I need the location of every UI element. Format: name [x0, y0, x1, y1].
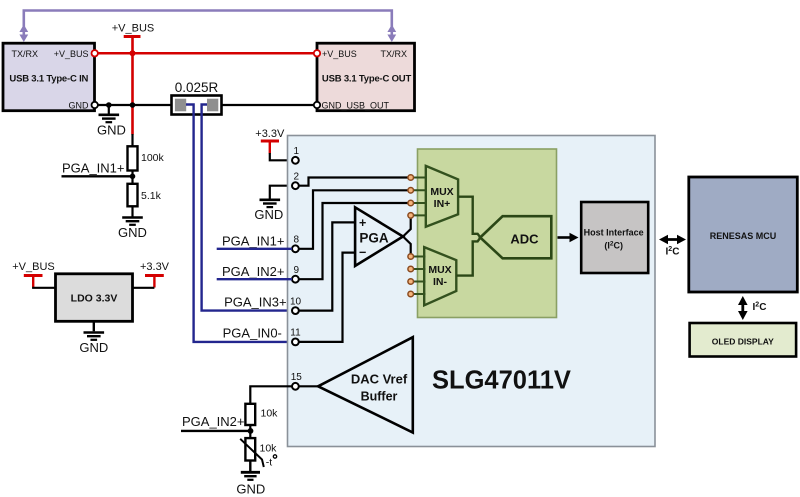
wire MUX IN- output to ADC: [456, 238, 480, 276]
wire TX/RX purple bus: [24, 11, 392, 28]
svg-text:PGA_IN0-: PGA_IN0-: [223, 326, 282, 341]
svg-text:USB 3.1 Type-C IN: USB 3.1 Type-C IN: [9, 74, 88, 85]
power symbol +V_BUS LDO: [24, 274, 43, 277]
svg-text:MUX: MUX: [428, 264, 451, 276]
svg-text:10k: 10k: [260, 443, 278, 455]
wire red LDO left: [32, 276, 34, 288]
ground under 5.1k: [122, 206, 143, 225]
svg-text:-t: -t: [266, 457, 272, 469]
pin GND of USB IN: [92, 102, 98, 108]
svg-text:11: 11: [290, 328, 301, 339]
node junction thermistor divider: [248, 428, 254, 434]
wire PGA output to MUX IN+ in4: [403, 215, 411, 236]
svg-text:I2C: I2C: [666, 246, 680, 258]
block RENESAS MCU: [689, 177, 798, 292]
svg-text:+V_BUS: +V_BUS: [322, 49, 357, 59]
svg-text:0.025R: 0.025R: [175, 80, 219, 95]
pin circles MUX IN-: [408, 254, 414, 297]
pin stubs MUX IN-: [411, 257, 426, 295]
svg-text:USB 3.1 Type-C OUT: USB 3.1 Type-C OUT: [322, 74, 412, 85]
resistor 10k upper: [245, 404, 278, 425]
adc ADC: [480, 216, 551, 258]
wire LDO left black: [33, 287, 55, 288]
wire I2C double arrow horizontal: [659, 235, 686, 258]
svg-text:TX/RX: TX/RX: [12, 49, 39, 59]
node junction +V_BUS: [130, 50, 136, 56]
svg-text:GND: GND: [97, 123, 126, 138]
wire +V_BUS red horizontal: [98, 52, 315, 55]
svg-text:RENESAS MCU: RENESAS MCU: [710, 231, 777, 241]
svg-text:IN+: IN+: [434, 198, 451, 210]
wire between resistors: [131, 171, 133, 184]
resistor 5.1k: [128, 184, 162, 207]
power symbol +V_BUS top: [124, 35, 141, 38]
resistor 100k: [128, 146, 165, 170]
wire pin 15 to DAC tip: [299, 385, 318, 387]
ground under LDO: [84, 321, 105, 340]
svg-text:PGA_IN2+: PGA_IN2+: [222, 264, 285, 279]
svg-text:Buffer: Buffer: [361, 389, 398, 403]
multiplexer MUX IN-: [424, 247, 456, 305]
node junction GND wire: [106, 102, 112, 108]
svg-text:+V_BUS: +V_BUS: [12, 261, 55, 273]
wire +V_BUS red vertical: [131, 37, 134, 135]
node junction at red crossing: [130, 102, 136, 108]
wire navy shunt right to PGA_IN3+: [202, 105, 292, 311]
svg-text:DAC Vref: DAC Vref: [351, 371, 408, 386]
svg-text:Host Interface: Host Interface: [584, 228, 644, 238]
pin stubs MUX IN+: [411, 178, 427, 216]
op-amp chip SLG47011V outline: [288, 136, 656, 447]
buffer DAC Vref Buffer: [318, 337, 413, 432]
power symbol +3.3V: [261, 140, 279, 143]
svg-text:LDO 3.3V: LDO 3.3V: [71, 293, 118, 305]
svg-text:10: 10: [290, 296, 302, 307]
wire pin 2 to ground: [270, 186, 292, 199]
wire PGA_IN2+ bottom stub: [181, 430, 251, 432]
svg-text:PGA_IN1+: PGA_IN1+: [222, 233, 285, 248]
wire MUX IN+ output to ADC: [458, 197, 480, 238]
wire PGA output to MUX IN- in1: [403, 237, 411, 257]
svg-text:5.1k: 5.1k: [141, 190, 162, 202]
svg-text:+3.3V: +3.3V: [255, 128, 285, 140]
svg-text:TX/RX: TX/RX: [380, 49, 407, 59]
svg-text:8: 8: [294, 235, 300, 246]
svg-text:(I2C): (I2C): [604, 241, 623, 251]
wire PGA_IN1+ stub: [62, 175, 133, 177]
block USB 3.1 Type-C IN: [3, 43, 95, 111]
svg-text:1: 1: [294, 146, 300, 157]
wire black stub above 100k: [131, 134, 133, 146]
svg-text:PGA_IN1+: PGA_IN1+: [62, 161, 125, 176]
multiplexer MUX IN+: [426, 166, 458, 227]
ground at pin 2: [260, 200, 281, 207]
wire GND black horizontal right: [222, 104, 315, 106]
svg-text:PGA_IN3+: PGA_IN3+: [224, 295, 287, 310]
svg-text:SLG47011V: SLG47011V: [432, 367, 571, 395]
ground under USB IN: [99, 105, 120, 122]
wire pin 9 to MUX IN+ in3: [299, 203, 409, 279]
svg-text:GND: GND: [254, 207, 283, 222]
wire pin 11 to PGA minus: [299, 253, 355, 342]
wire pin 10 to PGA plus: [299, 222, 355, 310]
thermistor 10k: [240, 438, 277, 468]
pin GND_USB_OUT of USB OUT: [314, 102, 320, 108]
wire TX/RX right double arrow: [387, 25, 396, 43]
svg-text:+: +: [359, 216, 366, 230]
resistor 0.025R shunt: [172, 80, 222, 115]
svg-text:I2C: I2C: [753, 302, 767, 314]
wire LDO right black: [133, 287, 155, 289]
svg-text:GND_USB_OUT: GND_USB_OUT: [322, 101, 390, 111]
block analog green area: [418, 149, 557, 318]
svg-text:PGA: PGA: [359, 230, 389, 245]
svg-text:10k: 10k: [261, 408, 279, 420]
wire red +3.3V stem: [269, 141, 271, 154]
wire GND black horizontal left: [98, 104, 172, 106]
block Host Interface I2C: [581, 202, 648, 273]
wire navy PGA_IN2+ stub: [217, 278, 292, 280]
svg-text:9: 9: [294, 265, 300, 276]
wire navy shunt left to PGA_IN0-: [186, 105, 292, 342]
block LDO 3.3V: [56, 274, 133, 322]
pin +V_BUS of USB IN: [92, 50, 98, 56]
svg-text:+V_BUS: +V_BUS: [112, 23, 155, 35]
svg-text:+3.3V: +3.3V: [140, 261, 170, 273]
power symbol +3.3V LDO: [145, 274, 164, 277]
svg-text:GND: GND: [79, 340, 108, 355]
wire red LDO right: [153, 276, 155, 288]
wire to pin 1: [270, 153, 292, 160]
op-amp PGA: [355, 207, 403, 266]
svg-text:MUX: MUX: [430, 186, 453, 198]
ground under thermistor: [241, 461, 260, 480]
svg-text:OLED DISPLAY: OLED DISPLAY: [712, 336, 774, 346]
wire pin 15 to divider: [250, 386, 292, 404]
node junction divider: [130, 174, 136, 180]
svg-text:15: 15: [291, 372, 303, 383]
wire 10k to junction: [249, 425, 251, 438]
wire I2C double arrow vertical: [738, 296, 766, 320]
wire TX/RX left double arrow: [19, 25, 28, 43]
svg-text:2: 2: [294, 171, 300, 182]
block OLED DISPLAY: [690, 323, 797, 357]
wire navy PGA_IN1+ stub: [217, 248, 292, 250]
svg-text:ADC: ADC: [510, 231, 539, 246]
svg-text:GND: GND: [118, 225, 147, 240]
wire pin 2 to MUX IN+ in1: [299, 178, 409, 186]
wire ADC to Host Interface arrow: [558, 236, 572, 239]
block USB 3.1 Type-C OUT: [317, 43, 415, 111]
svg-text:100k: 100k: [141, 152, 165, 164]
wire pin 8 to MUX IN+ in2: [299, 190, 409, 249]
svg-text:GND: GND: [236, 482, 265, 497]
svg-text:IN-: IN-: [433, 276, 448, 288]
pin circles MUX IN+: [408, 175, 414, 219]
pin +V_BUS of USB OUT: [314, 50, 320, 56]
svg-text:−: −: [359, 246, 366, 260]
svg-text:GND: GND: [69, 101, 90, 111]
svg-text:+V_BUS: +V_BUS: [54, 49, 89, 59]
svg-text:PGA_IN2+: PGA_IN2+: [182, 414, 245, 429]
